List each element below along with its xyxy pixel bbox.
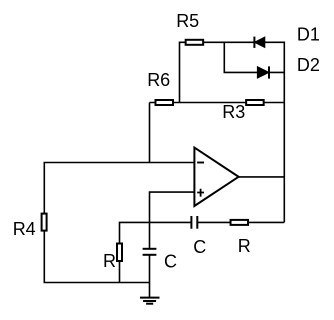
wire from R5 left down, along top row, and right vertical bus — [180, 42, 285, 222]
wire inverting input row, left vertical and bottom return — [44, 163, 194, 283]
wire op-amp output — [239, 176, 285, 178]
svg-text:C: C — [164, 251, 177, 271]
svg-text:D2: D2 — [297, 55, 320, 75]
resistor R (bottom left) — [117, 244, 122, 262]
resistor R (output low-pass) — [231, 220, 249, 225]
diode D2 — [257, 66, 269, 78]
svg-text:C: C — [193, 237, 206, 257]
svg-text:R: R — [103, 251, 116, 271]
svg-text:R6: R6 — [147, 70, 170, 90]
diode D1 — [254, 37, 264, 48]
svg-text:D1: D1 — [297, 25, 320, 45]
wire center vertical from capacitor to ground — [149, 255, 151, 298]
wire junction drop to D2 row — [224, 42, 284, 72]
resistor R4 — [42, 214, 47, 231]
wire bottom RC row right — [197, 221, 284, 223]
svg-text:R: R — [238, 236, 251, 256]
svg-text:R4: R4 — [13, 219, 36, 239]
wire non-inverting input row and center vertical to capacitor — [150, 192, 195, 249]
wire bottom RC row left and R branch down — [120, 222, 192, 282]
svg-text:R5: R5 — [176, 11, 199, 31]
resistor R5 — [186, 40, 204, 45]
op-amp U1 — [194, 148, 238, 206]
capacitor C (horizontal, feedback) — [191, 216, 197, 229]
wire R6/R3 row — [150, 102, 285, 104]
wire center drop from R6 row to inverting input row — [149, 103, 151, 163]
svg-text:R3: R3 — [222, 102, 245, 122]
capacitor C (vertical, bottom center) — [143, 249, 157, 255]
resistor R3 — [246, 100, 264, 105]
resistor R6 — [156, 100, 174, 105]
ground — [140, 298, 160, 304]
